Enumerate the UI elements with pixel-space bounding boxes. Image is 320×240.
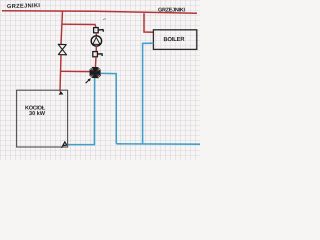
wire: blue drop below mixing valve to boiler return — [68, 78, 95, 145]
actuator arrow at mixing valve — [86, 78, 91, 83]
pencil mark — [103, 18, 106, 21]
wire: red feed to BOILER tank — [144, 13, 153, 32]
fitting at kociol supply port — [59, 91, 64, 95]
wire: red stub valve-to-pump — [95, 33, 97, 36]
pump P1 (circulation pump, circle with triangle) — [91, 36, 101, 46]
box: KOCIOL 30kW boiler — [17, 90, 68, 147]
svg-text:BOILER: BOILER — [163, 36, 185, 43]
svg-text:GRZEJNIKI: GRZEJNIKI — [158, 7, 185, 13]
node label GRZEJNIKI (top-left) — [7, 3, 41, 10]
wire: blue line mixing-valve right port to return drop — [101, 73, 117, 143]
label KOCIOL — [25, 106, 46, 112]
valve V2 (ball valve above pump) — [94, 28, 104, 33]
wire: blue bottom return to right edge — [116, 143, 200, 145]
valve MV1 (4-way mixing valve, star of 4 triangles) — [90, 67, 101, 78]
valve V1 (bowtie shutoff on left riser) — [58, 44, 66, 55]
wire: top red supply main — [2, 11, 197, 14]
fitting at kociol return port — [62, 142, 67, 148]
wire: red horizontal riser-to-mixing-valve — [60, 70, 89, 72]
wire: blue return from BOILER down to bottom main — [143, 43, 154, 144]
svg-text:30 kW: 30 kW — [29, 110, 46, 117]
wire: red stub pump-to-valve — [95, 46, 97, 51]
node label GRZEJNIKI (top-right) — [158, 7, 185, 13]
valve V3 (ball valve below pump) — [93, 52, 102, 57]
label BOILER — [163, 36, 185, 43]
wire: left red riser (boiler supply) — [60, 11, 63, 92]
box: BOILER (DHW tank) — [153, 30, 196, 50]
wire: red branch to pump column — [62, 24, 96, 27]
svg-text:GRZEJNIKI: GRZEJNIKI — [7, 3, 41, 10]
wire: red stub to mixing valve top — [94, 57, 97, 68]
label 30 kW — [29, 110, 46, 117]
